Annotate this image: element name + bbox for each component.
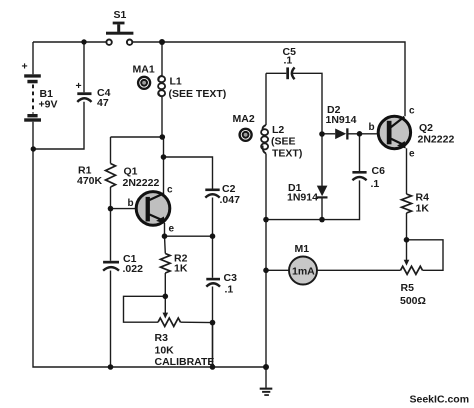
svg-text:b: b — [369, 122, 375, 133]
svg-text:10K: 10K — [155, 345, 175, 357]
svg-text:S1: S1 — [114, 9, 127, 21]
svg-text:c: c — [167, 185, 173, 196]
svg-text:M1: M1 — [295, 243, 310, 255]
svg-text:.1: .1 — [371, 178, 380, 190]
svg-text:SeekIC.com: SeekIC.com — [410, 394, 470, 406]
svg-text:(SEE: (SEE — [271, 136, 296, 148]
svg-text:C6: C6 — [372, 165, 386, 177]
svg-text:+: + — [22, 61, 28, 73]
svg-text:.022: .022 — [123, 263, 144, 275]
svg-text:e: e — [409, 149, 415, 160]
svg-text:470K: 470K — [77, 175, 103, 187]
svg-text:MA1: MA1 — [133, 64, 155, 76]
svg-text:c: c — [409, 106, 415, 117]
svg-text:(SEE TEXT): (SEE TEXT) — [169, 88, 227, 100]
svg-text:b: b — [128, 198, 134, 209]
svg-text:1mA: 1mA — [292, 266, 315, 278]
svg-text:MA2: MA2 — [233, 113, 255, 125]
svg-text:R3: R3 — [155, 332, 169, 344]
svg-text:2N2222: 2N2222 — [123, 177, 160, 189]
svg-text:1K: 1K — [174, 263, 188, 275]
svg-text:.1: .1 — [225, 284, 234, 296]
svg-text:+9V: +9V — [39, 99, 58, 111]
svg-text:2N2222: 2N2222 — [418, 134, 455, 146]
svg-text:1N914: 1N914 — [326, 114, 357, 126]
svg-text:R5: R5 — [401, 282, 415, 294]
svg-text:Q1: Q1 — [124, 166, 138, 178]
svg-text:L2: L2 — [272, 124, 284, 136]
svg-text:.1: .1 — [284, 55, 293, 67]
svg-text:.047: .047 — [220, 194, 241, 206]
svg-text:+: + — [76, 80, 82, 92]
svg-text:CALIBRATE: CALIBRATE — [155, 356, 215, 368]
svg-text:TEXT): TEXT) — [272, 148, 302, 160]
svg-text:Q2: Q2 — [419, 122, 433, 134]
svg-text:C3: C3 — [224, 272, 238, 284]
svg-text:e: e — [169, 224, 175, 235]
svg-text:1K: 1K — [416, 203, 430, 215]
svg-text:1N914: 1N914 — [287, 192, 318, 204]
svg-text:500Ω: 500Ω — [400, 295, 426, 307]
svg-text:L1: L1 — [170, 76, 182, 88]
svg-text:47: 47 — [97, 97, 109, 109]
